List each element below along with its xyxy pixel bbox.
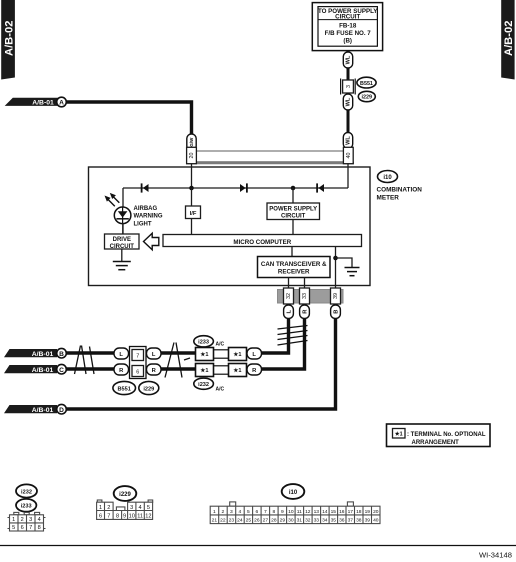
wire label R (147, 364, 162, 375)
svg-text:A/B-01: A/B-01 (32, 351, 54, 358)
wire B row (66, 351, 114, 354)
svg-text:★1: ★1 (200, 367, 208, 374)
signal arrow (144, 233, 159, 249)
svg-text:6: 6 (136, 370, 139, 376)
svg-text:7: 7 (107, 514, 110, 520)
svg-text:L: L (252, 352, 256, 358)
svg-text:37: 37 (348, 518, 354, 524)
svg-text:5: 5 (147, 505, 150, 511)
wire label WL (343, 52, 352, 68)
wire fuse to B551 connector (347, 51, 350, 80)
svg-text:7: 7 (29, 525, 32, 531)
node C (57, 364, 67, 374)
svg-text:★1: ★1 (233, 367, 241, 374)
svg-text:ARRANGEMENT: ARRANGEMENT (412, 440, 460, 446)
svg-text:★1: ★1 (233, 351, 241, 358)
svg-text:★1: ★1 (394, 432, 403, 438)
twisted pair marks (vertical run) (278, 326, 308, 346)
wire drive circuit to ground (121, 249, 123, 262)
connector label B551 (357, 77, 376, 88)
svg-text:29: 29 (280, 518, 286, 524)
terminal box star1 (C row, right) (229, 364, 247, 377)
svg-text:20: 20 (373, 509, 379, 515)
svg-text:24: 24 (237, 518, 243, 524)
svg-text:36: 36 (339, 518, 345, 524)
svg-text:2: 2 (222, 509, 225, 515)
connector B551/i229 pins 7/6 (130, 347, 147, 379)
svg-text:(B): (B) (343, 37, 352, 44)
pin 40 (343, 147, 353, 163)
wire label L (147, 348, 162, 359)
svg-text:3: 3 (346, 85, 352, 88)
svg-text:4: 4 (38, 517, 41, 523)
wire label L (284, 305, 294, 319)
node A (57, 97, 67, 107)
node junction power rail (291, 186, 296, 191)
svg-text:6: 6 (21, 525, 24, 531)
svg-text:A/B-01: A/B-01 (32, 367, 54, 374)
svg-text:2: 2 (21, 517, 24, 523)
connector label i232 (pinout) (16, 484, 37, 497)
connector label i229 (pinout) (114, 486, 137, 501)
svg-text:27: 27 (263, 518, 269, 524)
drive circuit box (105, 234, 140, 250)
svg-text:A/B-02: A/B-02 (3, 21, 15, 56)
svg-text:A/C: A/C (216, 387, 225, 393)
CAN transceiver box (258, 257, 331, 278)
wire B down to banner D (8, 318, 336, 409)
banner A/B-01 A (5, 98, 58, 107)
banner A/B-01 D (4, 405, 57, 414)
wire label WL (343, 133, 352, 149)
svg-text:30: 30 (288, 518, 294, 524)
svg-text:38: 38 (356, 518, 362, 524)
svg-text:40: 40 (373, 518, 379, 524)
inline connector join C row (214, 365, 229, 367)
svg-text:10: 10 (288, 509, 294, 515)
svg-text:CIRCUIT: CIRCUIT (281, 213, 306, 219)
svg-text:25: 25 (246, 518, 252, 524)
svg-text:MICRO COMPUTER: MICRO COMPUTER (233, 239, 291, 246)
svg-text:i229: i229 (362, 95, 373, 101)
svg-text:B551: B551 (360, 81, 373, 87)
svg-text:14: 14 (322, 509, 328, 515)
svg-text:10: 10 (129, 514, 135, 520)
svg-text:32: 32 (286, 293, 292, 299)
ground (meter right) (345, 268, 360, 276)
wire pin20 into meter (191, 164, 193, 189)
svg-text:12: 12 (145, 514, 151, 520)
svg-text:4: 4 (239, 509, 242, 515)
svg-text:17: 17 (348, 509, 354, 515)
svg-text:13: 13 (314, 509, 320, 515)
node junction ground branch (333, 256, 338, 261)
wire C row mid (161, 367, 196, 370)
svg-text:8: 8 (38, 525, 41, 531)
power supply circuit box (267, 203, 320, 220)
svg-text:A/C: A/C (216, 342, 225, 348)
wire label L (247, 348, 262, 359)
wire label WL (343, 94, 352, 110)
svg-text:3: 3 (230, 509, 233, 515)
svg-text:A/B-02: A/B-02 (503, 21, 515, 56)
svg-text:B: B (59, 351, 64, 358)
svg-text:8: 8 (273, 509, 276, 515)
footer rule (0, 545, 516, 547)
svg-text:CIRCUIT: CIRCUIT (335, 14, 360, 21)
connector pinout i10 (210, 502, 380, 524)
svg-text:34: 34 (322, 518, 328, 524)
svg-text:F/B FUSE NO. 7: F/B FUSE NO. 7 (325, 30, 372, 37)
svg-text:DRIVE: DRIVE (113, 237, 131, 243)
pin 39 (331, 288, 341, 304)
wire label B (331, 305, 341, 319)
wire label R (247, 364, 262, 375)
svg-text:39: 39 (365, 518, 371, 524)
svg-text:6: 6 (99, 514, 102, 520)
svg-text:15: 15 (331, 509, 337, 515)
svg-text:I/F: I/F (190, 211, 197, 217)
svg-text:5: 5 (247, 509, 250, 515)
wire B551 to meter pin 40 (347, 93, 350, 150)
wire rail to LED (122, 188, 124, 234)
svg-text:18: 18 (356, 509, 362, 515)
svg-text:31: 31 (297, 518, 303, 524)
svg-text:A/B-01: A/B-01 (32, 100, 54, 107)
svg-text:L: L (152, 352, 156, 358)
svg-text:6: 6 (256, 509, 259, 515)
internal supply rail wire (123, 187, 348, 189)
svg-text:A: A (59, 100, 64, 107)
svg-text:8: 8 (116, 514, 119, 520)
node D (57, 404, 67, 414)
svg-text:i233: i233 (198, 340, 209, 346)
wire CAN to pin 32 (288, 278, 290, 290)
svg-text:3: 3 (130, 505, 133, 511)
meter top connector strip (186, 151, 354, 163)
svg-text:COMBINATION: COMBINATION (377, 187, 423, 194)
svg-text:★1: ★1 (200, 351, 208, 358)
connector label B551 (113, 381, 136, 394)
svg-text:B: B (333, 310, 339, 314)
inline connector join B row (214, 349, 229, 351)
diode D2 (240, 183, 247, 192)
I/F box (186, 206, 201, 219)
svg-text:i232: i232 (198, 382, 209, 388)
svg-text:CAN TRANSCEIVER &: CAN TRANSCEIVER & (261, 261, 327, 268)
svg-text:L: L (119, 352, 123, 358)
svg-text:WL: WL (346, 97, 352, 106)
wire pin40 into meter (347, 164, 349, 189)
svg-text:C: C (59, 367, 64, 374)
node B (57, 348, 67, 358)
wire micro computer to pin 39 (335, 247, 337, 290)
connector pinout i229 (97, 500, 153, 519)
connector label i233 (pinout) (16, 499, 36, 512)
svg-text:L: L (286, 309, 292, 313)
svg-text:26: 26 (254, 518, 260, 524)
svg-text:3: 3 (29, 517, 32, 523)
svg-text:22: 22 (220, 518, 226, 524)
svg-text:33: 33 (302, 293, 308, 299)
svg-text:RECEIVER: RECEIVER (278, 269, 310, 276)
svg-text:i229: i229 (119, 492, 131, 498)
combination meter box U:I10 (89, 167, 371, 286)
svg-text:FB-18: FB-18 (339, 23, 357, 30)
right page tab A/B-02 (501, 0, 515, 80)
node junction pin20 rail (189, 186, 194, 191)
svg-text:POWER SUPPLY: POWER SUPPLY (269, 206, 317, 212)
connector label i233 (194, 336, 225, 348)
svg-text:AIRBAG: AIRBAG (134, 206, 158, 212)
wire CAN L down (262, 318, 289, 353)
connector pinout i232/i233 (8, 512, 46, 531)
banner A/B-01 C (4, 365, 57, 374)
svg-text:19: 19 (365, 509, 371, 515)
wire micro computer to CAN (291, 247, 293, 257)
svg-text:D: D (59, 407, 64, 414)
banner A/B-01 B (4, 349, 57, 358)
micro computer box (163, 235, 362, 247)
svg-text:WARNING: WARNING (134, 214, 163, 220)
wire label G/W (187, 134, 196, 151)
svg-text:40: 40 (346, 153, 352, 159)
svg-text:2: 2 (107, 505, 110, 511)
svg-text:9: 9 (281, 509, 284, 515)
svg-text:11: 11 (297, 509, 302, 515)
svg-text:5: 5 (12, 525, 15, 531)
svg-text:11: 11 (137, 514, 143, 520)
wire LED to drive circuit (122, 223, 124, 234)
svg-text:16: 16 (339, 509, 345, 515)
svg-text:33: 33 (314, 518, 320, 524)
svg-text:7: 7 (136, 354, 139, 360)
terminal box star1 (B row, left) (196, 348, 214, 361)
svg-text:i232: i232 (21, 489, 32, 495)
twisted pair marks (mid) (165, 343, 190, 378)
svg-text:WL: WL (346, 55, 352, 64)
wire power supply to micro computer (292, 220, 294, 235)
svg-text:12: 12 (305, 509, 311, 515)
wire C row (66, 367, 114, 370)
svg-text:: TERMINAL No. OPTIONAL: : TERMINAL No. OPTIONAL (407, 432, 486, 438)
connector B551/I229 pin 3 (341, 79, 356, 95)
wire A to meter pin 20 (66, 102, 191, 135)
left page tab A/B-02 (1, 0, 15, 80)
wire to right ground (336, 258, 353, 268)
terminal box star1 (C row, left) (196, 364, 214, 377)
svg-text:4: 4 (139, 505, 142, 511)
svg-text:A/B-01: A/B-01 (32, 407, 54, 414)
pin 20 (187, 147, 197, 163)
wire CAN to pin 33 (304, 278, 306, 290)
svg-text:G/W: G/W (189, 137, 194, 147)
wire rail to I/F (191, 188, 193, 206)
svg-text:i10: i10 (289, 490, 298, 496)
svg-text:20: 20 (189, 153, 195, 159)
svg-text:WI-34148: WI-34148 (479, 551, 512, 560)
svg-text:23: 23 (229, 518, 235, 524)
svg-text:CIRCUIT: CIRCUIT (110, 244, 135, 250)
meter bottom connector strip (278, 290, 344, 304)
connector label i229 (139, 381, 159, 394)
svg-text:i229: i229 (143, 386, 154, 392)
connector label i229 (358, 91, 375, 101)
svg-text:28: 28 (271, 518, 277, 524)
wire label R (114, 364, 129, 375)
svg-text:1: 1 (99, 505, 102, 511)
wire rail to power supply circuit (292, 188, 294, 203)
wire CAN R down (262, 318, 305, 369)
diode D1 (142, 183, 149, 192)
airbag warning light LED (105, 193, 131, 224)
diode D3 (317, 183, 324, 192)
legend box star1 (387, 424, 491, 447)
svg-text:LIGHT: LIGHT (134, 221, 152, 227)
terminal box star1 (B row, right) (229, 348, 247, 361)
svg-text:7: 7 (264, 509, 267, 515)
wire B row mid (161, 351, 196, 354)
meter label i10 (377, 171, 423, 202)
twisted pair marks (left) (75, 346, 95, 375)
ground (drive circuit) (113, 262, 131, 270)
wire I/F to micro computer (191, 219, 193, 235)
pin 33 (300, 288, 310, 304)
power supply source box (312, 3, 382, 51)
svg-text:i10: i10 (383, 175, 392, 181)
pin 32 (284, 288, 294, 304)
svg-text:9: 9 (123, 514, 126, 520)
connector label i10 (pinout) (282, 484, 305, 499)
svg-text:35: 35 (331, 518, 337, 524)
svg-text:METER: METER (377, 195, 400, 202)
wire label R (300, 305, 310, 319)
svg-text:21: 21 (212, 518, 218, 524)
svg-text:i233: i233 (21, 504, 32, 510)
label airbag warning light (134, 206, 163, 228)
wire label L (114, 348, 129, 359)
svg-text:WL: WL (346, 136, 352, 145)
svg-text:B551: B551 (118, 386, 131, 392)
svg-text:1: 1 (213, 509, 216, 515)
connector label i232 (194, 378, 225, 392)
svg-text:39: 39 (333, 293, 339, 299)
svg-text:1: 1 (12, 517, 15, 523)
svg-text:32: 32 (305, 518, 311, 524)
